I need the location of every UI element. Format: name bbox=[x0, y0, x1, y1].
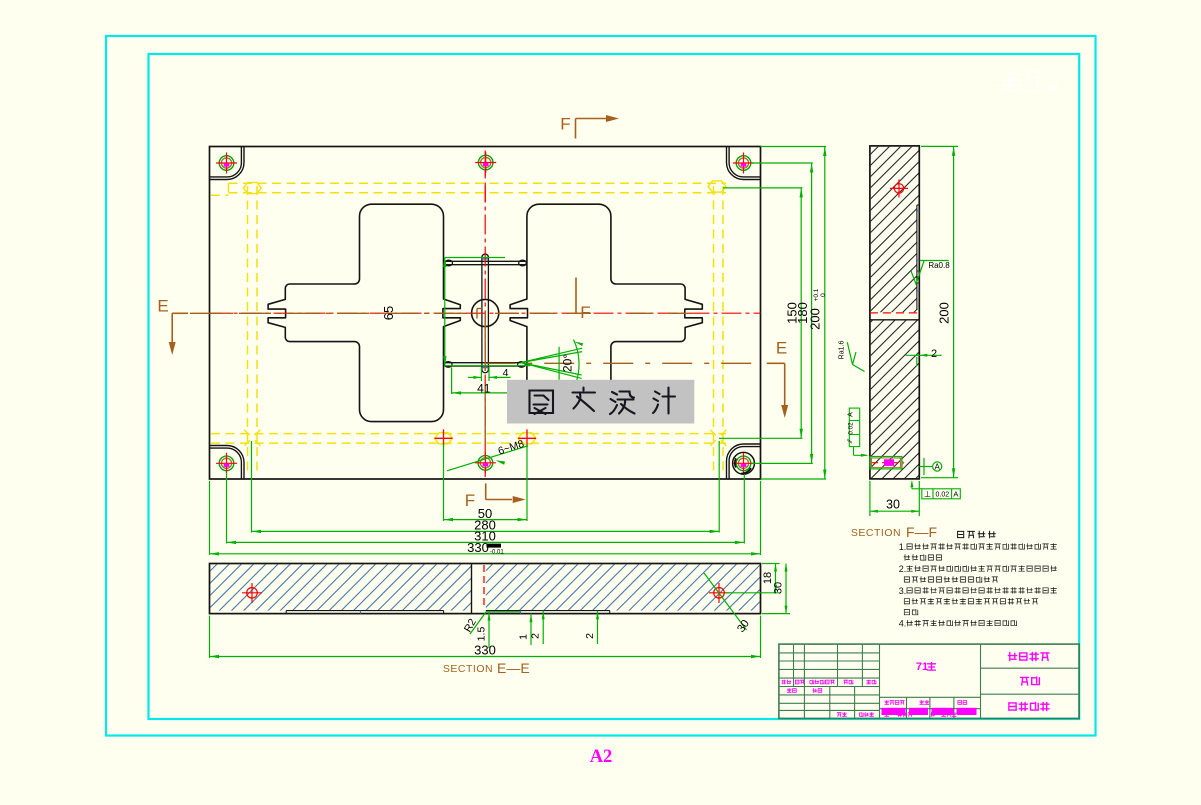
svg-text:Ra0.8: Ra0.8 bbox=[928, 261, 950, 270]
runner bar top bbox=[445, 260, 526, 262]
svg-text:0: 0 bbox=[820, 293, 827, 297]
corner hole bottom-left bbox=[219, 456, 234, 471]
dimension 310 bbox=[226, 474, 228, 544]
svg-text:A: A bbox=[848, 412, 855, 417]
surface finish Ra0.8 bbox=[911, 261, 924, 284]
runner bar bottom bbox=[445, 362, 526, 364]
svg-text:1.5: 1.5 bbox=[476, 627, 488, 642]
svg-text:0.02: 0.02 bbox=[847, 422, 854, 435]
svg-text:4: 4 bbox=[503, 367, 509, 379]
svg-text:3.: 3. bbox=[899, 586, 907, 596]
cavity outline left bbox=[268, 204, 460, 421]
svg-text:1.: 1. bbox=[899, 542, 907, 552]
svg-text:2.: 2. bbox=[899, 564, 907, 574]
svg-text:E—E: E—E bbox=[497, 660, 530, 676]
svg-text:E: E bbox=[157, 297, 168, 316]
dimension 280 bbox=[251, 441, 253, 533]
svg-text:30: 30 bbox=[773, 582, 785, 594]
mold plate outline top view bbox=[210, 147, 761, 480]
svg-text:F: F bbox=[580, 303, 590, 322]
section F-F parting seam bbox=[870, 312, 919, 314]
svg-text:Ra1.6: Ra1.6 bbox=[839, 341, 846, 360]
svg-text:65: 65 bbox=[381, 306, 396, 320]
leader 6-M8 bbox=[447, 446, 528, 471]
section E-E small depth dims bbox=[486, 611, 521, 613]
svg-text:⊥: ⊥ bbox=[924, 489, 932, 499]
svg-text:A: A bbox=[935, 463, 941, 472]
dimension 200+0.1 right bbox=[761, 146, 827, 148]
brown section line jog at sprue bbox=[477, 308, 482, 310]
mid hole bottom 6-M8 bbox=[478, 456, 493, 471]
svg-text:41: 41 bbox=[477, 381, 491, 395]
surface finish Ra1.6 left bbox=[847, 342, 864, 371]
red screw position crosses on yellow line bbox=[435, 437, 453, 439]
svg-text:2: 2 bbox=[584, 633, 596, 639]
svg-text:330: 330 bbox=[474, 643, 496, 658]
parallelism feature frame rotated bbox=[849, 408, 859, 447]
dimension 4 bbox=[480, 367, 482, 381]
datum A flag bbox=[923, 458, 925, 475]
dimension 65 vertical bbox=[444, 258, 446, 366]
svg-text:SECTION: SECTION bbox=[851, 527, 901, 539]
brown section line E-E horizontal left part bbox=[190, 312, 485, 314]
M8 screw in section bbox=[870, 457, 902, 469]
svg-text:SECTION: SECTION bbox=[443, 663, 493, 675]
cavity outline right bbox=[510, 204, 702, 421]
dimension 41 bbox=[451, 367, 453, 394]
section E-E right hole with dia30 leader bbox=[714, 588, 725, 599]
svg-text:F—F: F—F bbox=[906, 524, 937, 540]
svg-text:A: A bbox=[953, 490, 958, 499]
dimension 330 with tolerance bbox=[209, 481, 211, 555]
dim 2 wall bbox=[906, 354, 942, 356]
corner insert cutout top-left bbox=[210, 147, 245, 180]
corner hole bottom-right bbox=[733, 452, 755, 474]
brown section line E-E horizontal right part bbox=[485, 362, 757, 364]
gray watermark box tu wen she ji bbox=[507, 380, 694, 424]
dim 200 section F-F bbox=[921, 145, 958, 147]
svg-text:F: F bbox=[560, 115, 570, 134]
dimension 20 degree gate angle bbox=[521, 352, 582, 363]
svg-text:20°: 20° bbox=[561, 354, 575, 372]
red horizontal centerline bbox=[210, 312, 761, 314]
section F-F sprue bush bore line bbox=[916, 205, 918, 310]
dimension 180 right bbox=[752, 162, 813, 164]
inner cyan border frame bbox=[149, 54, 1080, 719]
corner hole top-left bbox=[219, 156, 234, 171]
technical requirements text block bbox=[958, 531, 964, 537]
sprue channel bbox=[481, 257, 483, 369]
svg-text:1: 1 bbox=[518, 634, 530, 640]
svg-text:E: E bbox=[776, 339, 787, 358]
yellow hidden clamp plate lines bbox=[211, 183, 726, 474]
corner insert cutout bottom-right bbox=[727, 444, 761, 479]
svg-text:F: F bbox=[465, 491, 475, 510]
svg-text:200: 200 bbox=[937, 302, 952, 324]
svg-text:4.: 4. bbox=[899, 619, 907, 629]
title block magenta filled blocks bbox=[882, 708, 906, 715]
corner insert cutout bottom-left bbox=[210, 446, 245, 480]
section E-E left hole bbox=[247, 588, 258, 599]
brown horizontal dashes right of sprue at centerline bbox=[495, 312, 592, 314]
section E-E dim 330 bbox=[209, 616, 211, 658]
dimension 50 bbox=[443, 444, 445, 521]
title block grid bbox=[779, 644, 1079, 718]
yellow hidden hex sockets bbox=[243, 182, 261, 193]
yellow corner junction stars bbox=[244, 430, 260, 446]
section E-E dims 18 and 30 right bbox=[762, 563, 780, 565]
svg-text:2: 2 bbox=[931, 348, 937, 360]
dim 30 section F-F bbox=[869, 481, 871, 516]
corner insert cutout top-right bbox=[727, 147, 761, 180]
red vertical centerline bbox=[484, 151, 486, 478]
section F-F guide hole crosshair bbox=[894, 184, 903, 193]
perpendicularity frame bbox=[911, 482, 913, 489]
svg-text:30: 30 bbox=[886, 498, 900, 512]
section E-E cavity recess lines bbox=[286, 610, 443, 612]
section E-E bar bbox=[155, 562, 812, 676]
mid hole top bbox=[478, 155, 493, 170]
svg-text:330: 330 bbox=[467, 540, 489, 555]
sprue circle dia16 bbox=[472, 299, 499, 326]
dimension 150 right bbox=[723, 187, 803, 189]
svg-text:200: 200 bbox=[808, 308, 823, 330]
svg-text:0.02: 0.02 bbox=[935, 492, 949, 499]
svg-text:+0.1: +0.1 bbox=[813, 288, 820, 301]
red crosshairs short at mid holes bbox=[484, 170, 486, 176]
svg-text:-0.01: -0.01 bbox=[490, 550, 504, 556]
svg-text:71: 71 bbox=[916, 661, 928, 673]
svg-text:A2: A2 bbox=[590, 747, 613, 767]
corner hole top-right bbox=[736, 156, 751, 171]
faint white annotation with roughness symbol top-right bbox=[1004, 72, 1060, 92]
section E-E center seam and sprue gap bbox=[471, 564, 473, 614]
outer cyan border frame bbox=[106, 36, 1096, 736]
svg-text:2: 2 bbox=[530, 633, 542, 639]
section marker F mid jog bbox=[575, 278, 577, 314]
